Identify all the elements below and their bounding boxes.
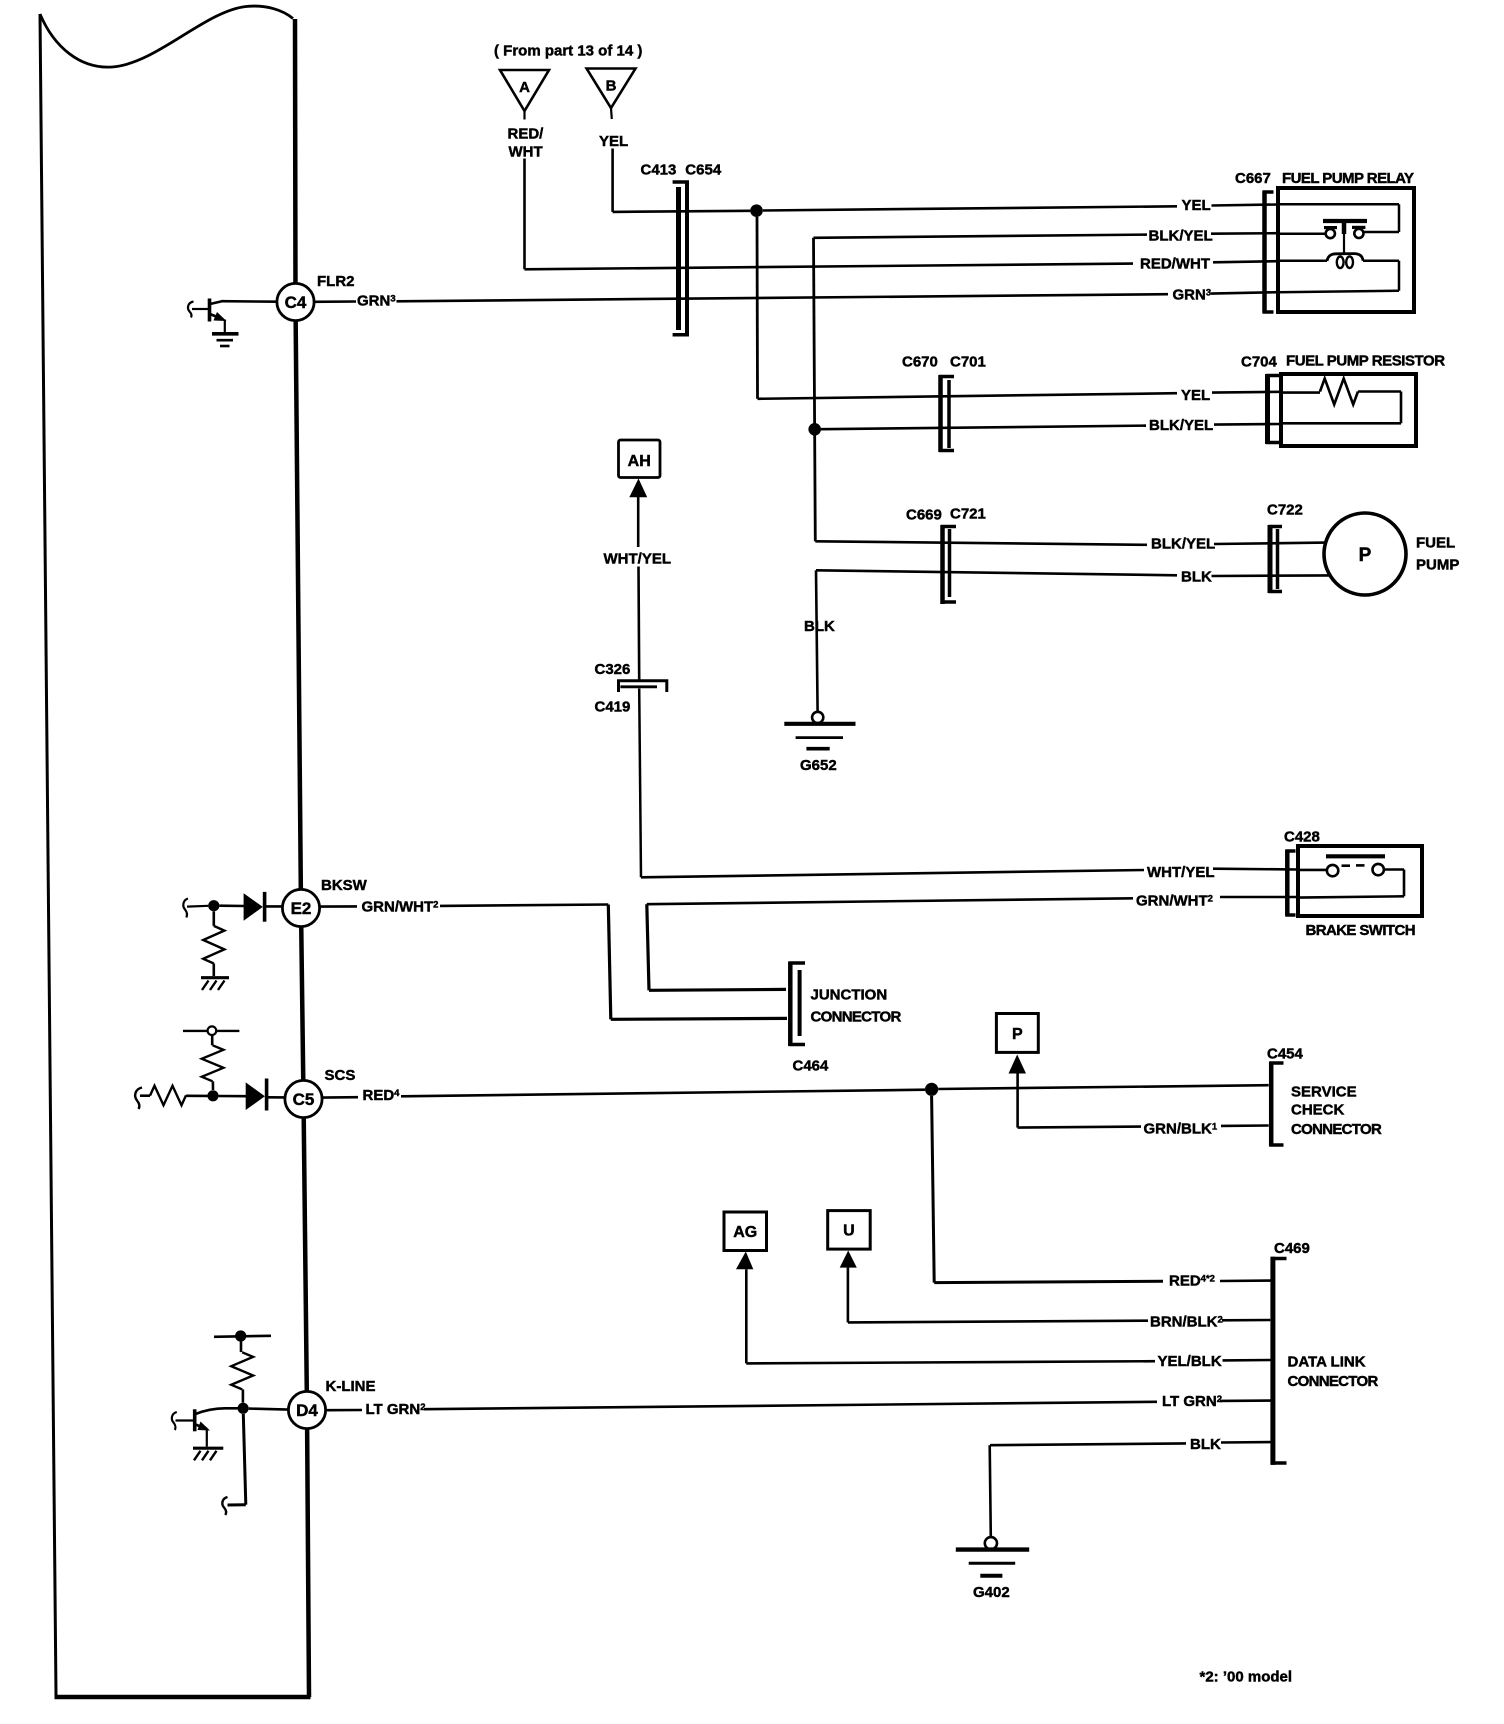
pin circle C4 bbox=[277, 283, 314, 320]
svg-text:FLR2: FLR2 bbox=[317, 273, 355, 290]
connector C413/C654 labels bbox=[641, 162, 722, 179]
wire BLK/YEL vertical trunk bbox=[814, 238, 816, 542]
svg-text:E2: E2 bbox=[291, 899, 312, 918]
curl (E2 stub) bbox=[183, 899, 188, 918]
svg-text:CHECK: CHECK bbox=[1291, 1102, 1345, 1119]
connector C469 bracket bbox=[1271, 1257, 1287, 1465]
node RED junction bbox=[925, 1083, 938, 1096]
svg-text:C669: C669 bbox=[906, 507, 942, 524]
arrow to P bbox=[1009, 1055, 1027, 1074]
svg-text:C701: C701 bbox=[950, 354, 986, 371]
node pull-up rail bbox=[235, 1330, 246, 1341]
wire label BLK (vertical) bbox=[801, 613, 835, 636]
relay armature bbox=[1342, 223, 1347, 253]
brake switch contacts bbox=[1327, 864, 1384, 876]
connector C722 bbox=[1269, 525, 1283, 593]
svg-text:P: P bbox=[1012, 1026, 1023, 1043]
wire WHT/YEL up to AH bbox=[637, 497, 640, 547]
svg-text:D4: D4 bbox=[296, 1401, 318, 1420]
node YEL junction bbox=[750, 204, 763, 217]
svg-text:BLK: BLK bbox=[804, 618, 835, 635]
svg-text:U: U bbox=[843, 1223, 855, 1240]
wire BLK/YEL to relay bbox=[814, 235, 1148, 238]
svg-text:FUEL PUMP RESISTOR: FUEL PUMP RESISTOR bbox=[1286, 353, 1445, 370]
resistor R2 (horizontal, at C5) bbox=[140, 1086, 208, 1105]
wire GRN into relay bbox=[1211, 292, 1278, 293]
wire BLK into pump bbox=[1212, 574, 1330, 577]
arrow to AG bbox=[736, 1252, 753, 1270]
connector C669/C721 labels bbox=[906, 506, 986, 524]
svg-text:BLK/YEL: BLK/YEL bbox=[1149, 227, 1213, 244]
svg-text:C454: C454 bbox=[1267, 1046, 1304, 1063]
box P bbox=[996, 1014, 1038, 1053]
wire WHT/YEL into switch bbox=[1213, 867, 1298, 870]
wire to E2 node bbox=[187, 905, 208, 908]
relay internal GRN return bbox=[1278, 261, 1399, 293]
wire RED/WHT horizontal to relay bbox=[525, 264, 1134, 270]
svg-text:B: B bbox=[606, 78, 617, 95]
wire LT GRN from D4 bbox=[326, 1409, 362, 1412]
transistor Q2 (at D4) bbox=[172, 1408, 238, 1446]
connector triangle B bbox=[587, 69, 636, 120]
svg-text:C428: C428 bbox=[1284, 829, 1320, 846]
svg-text:LT GRN2: LT GRN2 bbox=[366, 1401, 426, 1418]
connector triangle A bbox=[500, 70, 549, 120]
connector C701 half bbox=[947, 380, 951, 448]
relay contact right bbox=[1352, 227, 1365, 238]
wire GRN/WHT into switch bbox=[1220, 896, 1298, 899]
connector C454 bracket bbox=[1270, 1062, 1284, 1147]
component label FUEL PUMP bbox=[1416, 535, 1459, 574]
wire RED/WHT vertical from A bbox=[523, 159, 526, 270]
svg-text:GRN/WHT2: GRN/WHT2 bbox=[1136, 893, 1213, 910]
wire BLK/YEL to fuel pump bbox=[815, 541, 1147, 545]
wire WHT/YEL down to brake switch row bbox=[639, 689, 641, 878]
wire RED into C469 bbox=[1220, 1279, 1271, 1282]
fuel pump relay U1 box bbox=[1278, 188, 1414, 312]
brake switch box bbox=[1298, 846, 1422, 916]
svg-text:C704: C704 bbox=[1241, 354, 1278, 371]
node BLK/YEL junction bbox=[808, 423, 821, 436]
svg-text:SERVICE: SERVICE bbox=[1291, 1084, 1357, 1101]
svg-text:BLK: BLK bbox=[1181, 569, 1212, 586]
node E2 input bbox=[208, 900, 219, 911]
wire YEL vertical from B bbox=[611, 149, 614, 212]
wire RED to service check connector bbox=[401, 1090, 925, 1097]
wire BRN/BLK into C469 bbox=[1222, 1319, 1270, 1322]
brake switch bar bbox=[1326, 854, 1385, 858]
svg-text:BLK: BLK bbox=[1190, 1436, 1221, 1453]
ground G402 bbox=[956, 1537, 1029, 1601]
resistor R1 (below E2 node) bbox=[203, 911, 224, 976]
wire BLK from fuel pump bbox=[816, 570, 1177, 575]
connector C413 half bbox=[676, 187, 681, 330]
transistor Q1 (at pin C4) bbox=[188, 299, 227, 333]
svg-text:C667: C667 bbox=[1235, 170, 1271, 187]
connector C721 half bbox=[948, 529, 952, 597]
rail with switch circle (above C5) bbox=[183, 1026, 239, 1035]
wire diode to E2 bbox=[266, 905, 283, 908]
connector C428 bracket bbox=[1286, 850, 1296, 917]
wire BLK/YEL into relay bbox=[1211, 232, 1278, 235]
connector C654 half bbox=[673, 182, 689, 335]
wire YEL horizontal to junction bbox=[613, 211, 751, 212]
svg-text:BRAKE SWITCH: BRAKE SWITCH bbox=[1306, 922, 1415, 939]
relay switch bar bbox=[1323, 219, 1367, 223]
svg-text:C722: C722 bbox=[1267, 502, 1303, 519]
diode D1 (at E2) bbox=[244, 892, 265, 922]
svg-text:YEL/BLK: YEL/BLK bbox=[1158, 1353, 1222, 1370]
resistor R3 (vertical, above C5 node) bbox=[202, 1035, 224, 1090]
arrow to AH bbox=[629, 479, 647, 498]
svg-text:BLK/YEL: BLK/YEL bbox=[1151, 536, 1215, 553]
svg-text:C413: C413 bbox=[641, 162, 677, 179]
relay internal RED/WHT stub bbox=[1278, 259, 1327, 262]
box U bbox=[828, 1211, 871, 1250]
wire GRN/BLK to C454 bbox=[1018, 1127, 1141, 1128]
wire diode to C5 bbox=[268, 1096, 285, 1099]
svg-text:C419: C419 bbox=[595, 699, 631, 716]
wire BLK/YEL to resistor bbox=[821, 426, 1146, 430]
wire WHT/YEL to brake switch bbox=[641, 870, 1144, 877]
pin circle D4 bbox=[288, 1391, 325, 1428]
wire LT GRN into C469 bbox=[1220, 1399, 1271, 1402]
wire GRN/WHT to brake switch bbox=[647, 898, 1133, 990]
wire RED into C454 bbox=[938, 1085, 1268, 1089]
wire node to diode bbox=[219, 904, 244, 907]
svg-text:RED/WHT: RED/WHT bbox=[1140, 255, 1210, 272]
diode D2 (at C5) bbox=[246, 1079, 267, 1111]
connector C326/C419 bbox=[619, 681, 667, 692]
wire BRN/BLK vertical bbox=[847, 1268, 850, 1323]
relay contact left bbox=[1324, 228, 1337, 239]
wire BLK to data link bbox=[990, 1443, 1186, 1445]
svg-text:C5: C5 bbox=[293, 1090, 315, 1109]
svg-text:LT GRN2: LT GRN2 bbox=[1162, 1393, 1222, 1410]
svg-text:PUMP: PUMP bbox=[1416, 557, 1459, 574]
fuel pump motor P bbox=[1324, 513, 1406, 595]
component label SERVICE CHECK CONNECTOR bbox=[1291, 1084, 1382, 1139]
ground G652 bbox=[784, 712, 855, 774]
wire label RED/WHT (from A) bbox=[508, 126, 545, 161]
connector C670/C701 labels bbox=[902, 354, 986, 371]
relay internal BLK/YEL stub bbox=[1278, 232, 1326, 235]
wire BLK/YEL into pump bbox=[1214, 543, 1326, 544]
svg-text:C464: C464 bbox=[793, 1058, 830, 1075]
svg-text:YEL: YEL bbox=[1181, 387, 1210, 404]
wire GRN from C4 bbox=[314, 300, 356, 303]
wire WHT/YEL down to C326 bbox=[637, 567, 640, 680]
rail (above R4) bbox=[214, 1336, 271, 1337]
svg-text:GRN3: GRN3 bbox=[357, 293, 396, 310]
svg-text:WHT: WHT bbox=[509, 144, 543, 161]
svg-text:AG: AG bbox=[733, 1224, 757, 1241]
wire BLK into C469 bbox=[1221, 1441, 1271, 1444]
ground (below Q2) bbox=[193, 1448, 223, 1460]
ground (below R1) bbox=[201, 978, 229, 990]
junction connector C464 bbox=[789, 962, 805, 1047]
wire YEL drop from junction bbox=[756, 217, 759, 399]
svg-text:YEL: YEL bbox=[599, 133, 628, 150]
wire YEL to fuel pump resistor bbox=[758, 393, 1178, 399]
wire RED/WHT into relay bbox=[1213, 261, 1278, 262]
wire YEL/BLK vertical bbox=[745, 1269, 748, 1363]
svg-text:C326: C326 bbox=[595, 661, 631, 678]
component label JUNCTION CONNECTOR bbox=[811, 987, 902, 1026]
wire GRN/WHT to junction connector bbox=[440, 905, 787, 1020]
svg-text:BRN/BLK2: BRN/BLK2 bbox=[1150, 1314, 1223, 1331]
svg-text:YEL: YEL bbox=[1182, 197, 1211, 214]
node D4 input bbox=[238, 1403, 249, 1414]
svg-text:GRN/BLK1: GRN/BLK1 bbox=[1144, 1121, 1218, 1138]
ground (below Q1) bbox=[212, 334, 239, 346]
wire YEL/BLK to data link bbox=[746, 1361, 1155, 1363]
wire RED down to data link bbox=[932, 1096, 1163, 1283]
svg-text:RED/: RED/ bbox=[508, 126, 545, 143]
ECM/PCM module outline (torn-edge box) bbox=[40, 6, 311, 1697]
connector C670 half bbox=[939, 375, 954, 452]
svg-text:C469: C469 bbox=[1274, 1240, 1310, 1257]
svg-text:JUNCTION: JUNCTION bbox=[811, 987, 888, 1004]
svg-text:K-LINE: K-LINE bbox=[326, 1378, 376, 1395]
connector C667 bracket bbox=[1263, 191, 1274, 314]
svg-text:C654: C654 bbox=[685, 162, 722, 179]
svg-text:G402: G402 bbox=[973, 1584, 1010, 1601]
wire BLK down to G402 bbox=[990, 1445, 991, 1537]
svg-text:BKSW: BKSW bbox=[321, 877, 368, 894]
pin circle E2 bbox=[282, 889, 319, 926]
svg-text:FUEL PUMP RELAY: FUEL PUMP RELAY bbox=[1282, 170, 1414, 187]
wire GRN to relay bbox=[397, 294, 1169, 301]
node C5 input bbox=[207, 1090, 218, 1101]
wire node to D4 bbox=[249, 1409, 289, 1410]
component label DATA LINK CONNECTOR bbox=[1288, 1354, 1379, 1391]
relay coil bbox=[1327, 254, 1363, 269]
wire YEL junction to relay bbox=[763, 206, 1177, 210]
wire Q1 collector to C4 bbox=[222, 300, 277, 303]
svg-text:C4: C4 bbox=[285, 293, 307, 312]
svg-text:*2: ’00 model: *2: ’00 model bbox=[1200, 1669, 1293, 1686]
relay internal YEL feed bbox=[1278, 204, 1399, 232]
svg-text:AH: AH bbox=[628, 453, 651, 470]
svg-text:P: P bbox=[1359, 545, 1372, 566]
svg-text:C670: C670 bbox=[902, 354, 938, 371]
arrow to U bbox=[840, 1251, 857, 1268]
wire GRN/BLK vertical bbox=[1016, 1074, 1019, 1128]
wire YEL into relay bbox=[1212, 205, 1279, 206]
curl (Q2 branch end) bbox=[222, 1497, 227, 1515]
svg-text:C721: C721 bbox=[950, 506, 986, 523]
svg-text:BLK/YEL: BLK/YEL bbox=[1149, 417, 1213, 434]
wire RED from C5 bbox=[322, 1096, 358, 1099]
svg-text:( From part 13 of 14 ): ( From part 13 of 14 ) bbox=[494, 43, 642, 60]
svg-text:G652: G652 bbox=[800, 757, 837, 774]
svg-text:A: A bbox=[519, 79, 530, 96]
wire LT GRN to data link bbox=[424, 1402, 1157, 1409]
svg-text:DATA LINK: DATA LINK bbox=[1288, 1354, 1366, 1371]
resistor element (inside) bbox=[1281, 379, 1401, 424]
connector C669 half bbox=[941, 525, 956, 604]
box AG bbox=[724, 1212, 767, 1251]
wire GRN/WHT from E2 bbox=[320, 905, 357, 908]
svg-text:CONNECTOR: CONNECTOR bbox=[1288, 1373, 1379, 1390]
svg-text:FUEL: FUEL bbox=[1416, 535, 1455, 552]
box AH bbox=[619, 440, 661, 478]
curl (C5 rail) bbox=[135, 1088, 142, 1110]
svg-text:SCS: SCS bbox=[325, 1067, 356, 1084]
wire BRN/BLK to data link bbox=[848, 1321, 1148, 1323]
wire node to diode bbox=[219, 1095, 247, 1098]
wire YEL/BLK into C469 bbox=[1223, 1359, 1271, 1362]
svg-text:CONNECTOR: CONNECTOR bbox=[811, 1009, 902, 1026]
wire BLK down to ground bbox=[816, 570, 818, 712]
wire GRN/BLK into C454 bbox=[1221, 1124, 1269, 1127]
wire YEL into resistor bbox=[1212, 390, 1281, 393]
fuel pump resistor box bbox=[1281, 374, 1416, 446]
pin circle C5 bbox=[285, 1080, 322, 1117]
wire BLK/YEL into resistor bbox=[1214, 423, 1281, 426]
connector C704 bracket bbox=[1266, 374, 1281, 444]
svg-text:GRN/WHT2: GRN/WHT2 bbox=[362, 899, 439, 916]
wire D4 node down bbox=[228, 1414, 246, 1505]
brake switch internal wires bbox=[1298, 870, 1404, 898]
svg-text:GRN3: GRN3 bbox=[1173, 287, 1212, 304]
svg-text:WHT/YEL: WHT/YEL bbox=[1147, 864, 1215, 881]
svg-text:CONNECTOR: CONNECTOR bbox=[1291, 1121, 1382, 1138]
resistor R4 (above D4 node) bbox=[231, 1342, 253, 1403]
svg-text:WHT/YEL: WHT/YEL bbox=[604, 551, 672, 568]
